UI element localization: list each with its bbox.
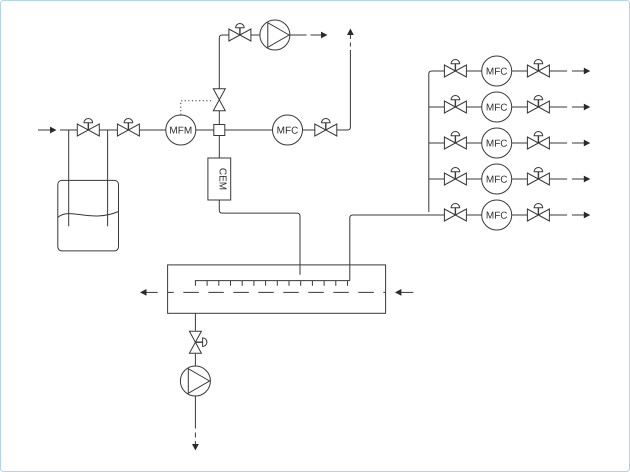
svg-text:MFC: MFC <box>486 67 508 78</box>
svg-text:CEM: CEM <box>216 168 227 190</box>
svg-text:MFC: MFC <box>486 139 508 150</box>
svg-text:MFM: MFM <box>169 126 192 137</box>
svg-text:MFC: MFC <box>486 103 508 114</box>
svg-text:MFC: MFC <box>486 211 508 222</box>
svg-text:MFC: MFC <box>486 175 508 186</box>
svg-text:MFC: MFC <box>277 126 299 137</box>
